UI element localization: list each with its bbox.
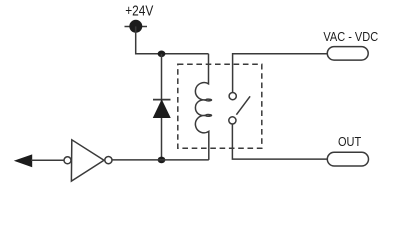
switch contact bottom — [229, 117, 236, 124]
wire arrow to inverter — [31, 159, 64, 161]
inverter output bubble — [105, 157, 112, 164]
wire switch to OUT — [232, 124, 327, 159]
+24V terminal dot — [129, 20, 142, 33]
inverter input bubble — [64, 157, 71, 164]
terminal OUT — [327, 152, 368, 166]
switch contact top — [229, 93, 236, 100]
wire diode branch — [161, 54, 163, 160]
switch blade — [236, 96, 250, 114]
svg-text:+24V: +24V — [125, 2, 153, 19]
svg-text:VAC - VDC: VAC - VDC — [323, 29, 378, 44]
relay coil K1 — [195, 54, 211, 160]
+24V terminal stub — [125, 26, 148, 28]
wire bottom rail — [112, 159, 209, 161]
node junction top — [158, 51, 166, 58]
wire +24V to top rail — [136, 26, 209, 53]
wire switch to VAC-VDC — [233, 54, 328, 93]
inverter U1 — [71, 140, 104, 181]
diode D1 cathode bar — [153, 99, 171, 101]
relay dashed enclosure — [178, 64, 262, 148]
diode D1 — [153, 100, 170, 117]
terminal VAC-VDC — [327, 47, 368, 61]
node junction bottom — [158, 157, 166, 164]
arrow to logic — [15, 155, 32, 167]
svg-text:OUT: OUT — [338, 134, 362, 149]
